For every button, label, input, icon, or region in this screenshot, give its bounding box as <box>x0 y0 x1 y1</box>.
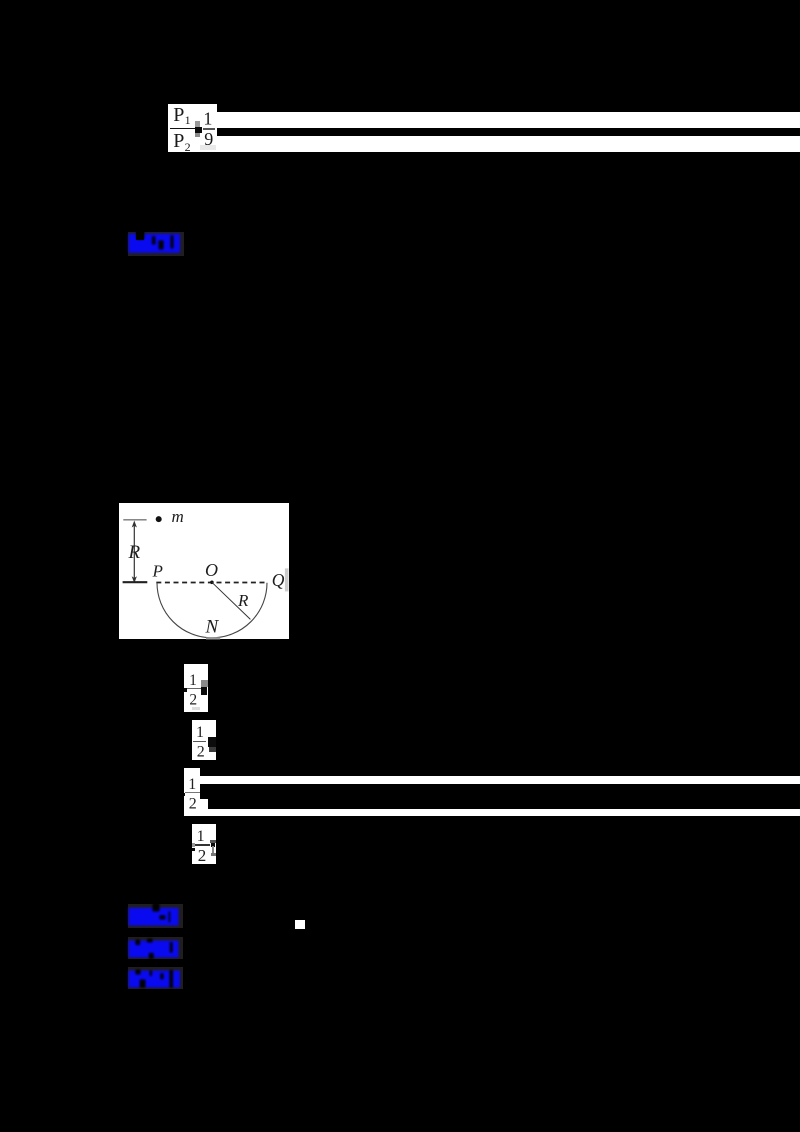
svg-text:R: R <box>237 591 249 610</box>
svg-text:1: 1 <box>189 672 197 689</box>
svg-text:1: 1 <box>203 109 212 129</box>
svg-text:P: P <box>152 561 163 580</box>
svg-text:O: O <box>205 559 218 579</box>
svg-text:P: P <box>173 104 184 126</box>
svg-text:2: 2 <box>185 140 191 154</box>
svg-text:2: 2 <box>189 692 197 709</box>
svg-text:N: N <box>205 616 220 637</box>
svg-text:2: 2 <box>189 795 197 812</box>
svg-text:1: 1 <box>188 776 196 793</box>
svg-text:R: R <box>128 541 141 562</box>
svg-text:1: 1 <box>196 724 204 741</box>
svg-text:1: 1 <box>185 113 191 127</box>
svg-text:m: m <box>172 506 184 525</box>
svg-text:2: 2 <box>197 744 205 761</box>
svg-text:2: 2 <box>198 846 207 865</box>
svg-text:Q: Q <box>272 569 285 589</box>
svg-text:1: 1 <box>197 828 205 845</box>
svg-text:P: P <box>173 130 184 152</box>
